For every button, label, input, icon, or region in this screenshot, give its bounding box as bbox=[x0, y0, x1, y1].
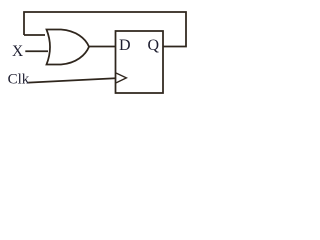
svg-text:X: X bbox=[12, 43, 23, 60]
svg-text:D: D bbox=[119, 37, 131, 54]
svg-text:Clk: Clk bbox=[8, 72, 30, 88]
svg-text:Q: Q bbox=[148, 37, 160, 54]
